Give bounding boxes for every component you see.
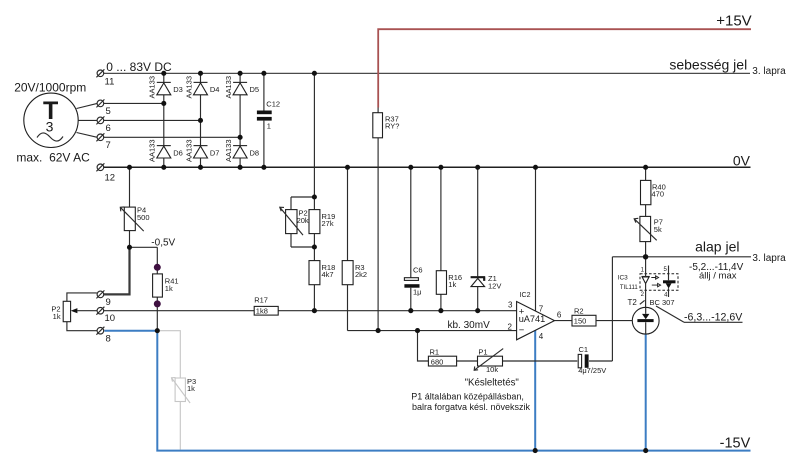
svg-text:−: − bbox=[519, 325, 525, 336]
svg-text:2k2: 2k2 bbox=[355, 270, 367, 279]
svg-text:1k8: 1k8 bbox=[256, 306, 268, 315]
svg-text:470: 470 bbox=[652, 190, 665, 199]
svg-text:1k: 1k bbox=[187, 384, 195, 393]
svg-text:-15V: -15V bbox=[720, 435, 751, 451]
svg-text:állj / max: állj / max bbox=[699, 271, 737, 282]
svg-text:P1: P1 bbox=[478, 347, 487, 356]
svg-text:R17: R17 bbox=[254, 296, 268, 305]
svg-text:8: 8 bbox=[106, 334, 111, 345]
svg-text:AA133: AA133 bbox=[224, 76, 233, 99]
svg-text:"Késleltetés": "Késleltetés" bbox=[465, 377, 520, 388]
svg-text:11: 11 bbox=[105, 77, 115, 88]
svg-text:T2: T2 bbox=[628, 298, 638, 307]
svg-text:IC3: IC3 bbox=[618, 274, 629, 281]
svg-text:2: 2 bbox=[508, 323, 513, 332]
svg-text:3. lapra: 3. lapra bbox=[752, 66, 786, 77]
svg-text:RY?: RY? bbox=[385, 122, 399, 131]
svg-text:D7: D7 bbox=[210, 148, 220, 157]
svg-text:7: 7 bbox=[106, 140, 111, 151]
svg-text:alap jel: alap jel bbox=[695, 238, 739, 254]
svg-text:12: 12 bbox=[105, 173, 116, 184]
svg-text:5: 5 bbox=[106, 106, 111, 117]
svg-text:9: 9 bbox=[106, 297, 111, 308]
svg-text:D3: D3 bbox=[173, 85, 183, 94]
svg-text:R1: R1 bbox=[430, 347, 440, 356]
svg-text:D6: D6 bbox=[173, 148, 183, 157]
svg-text:12V: 12V bbox=[488, 282, 501, 291]
svg-text:1μ: 1μ bbox=[413, 288, 422, 297]
svg-text:1k: 1k bbox=[448, 280, 456, 289]
svg-text:AA133: AA133 bbox=[184, 76, 193, 99]
svg-text:uA741: uA741 bbox=[519, 314, 546, 324]
svg-text:P1 általában középállásban,: P1 általában középállásban, bbox=[411, 392, 524, 402]
svg-text:D5: D5 bbox=[250, 85, 260, 94]
svg-text:6: 6 bbox=[106, 123, 111, 134]
svg-text:sebesség jel: sebesség jel bbox=[669, 56, 747, 72]
svg-text:5k: 5k bbox=[654, 225, 662, 234]
svg-text:20V/1000rpm: 20V/1000rpm bbox=[14, 81, 86, 95]
svg-text:D4: D4 bbox=[210, 85, 220, 94]
svg-text:10k: 10k bbox=[486, 365, 498, 374]
svg-text:1: 1 bbox=[267, 121, 271, 130]
svg-text:680: 680 bbox=[431, 357, 444, 366]
svg-text:BC 307: BC 307 bbox=[650, 298, 675, 307]
svg-text:kb. 30mV: kb. 30mV bbox=[448, 320, 491, 331]
svg-text:150: 150 bbox=[574, 317, 587, 326]
svg-text:-0,5V: -0,5V bbox=[151, 238, 175, 249]
svg-text:IC2: IC2 bbox=[520, 292, 531, 299]
svg-text:D8: D8 bbox=[250, 148, 260, 157]
svg-text:+15V: +15V bbox=[716, 13, 751, 30]
svg-text:4μ7/25V: 4μ7/25V bbox=[578, 366, 606, 375]
svg-text:3: 3 bbox=[508, 300, 513, 309]
svg-text:C12: C12 bbox=[266, 100, 280, 109]
svg-text:7: 7 bbox=[539, 305, 544, 314]
svg-text:TIL111: TIL111 bbox=[620, 285, 638, 291]
svg-text:AA133: AA133 bbox=[148, 76, 157, 99]
svg-text:AA133: AA133 bbox=[224, 139, 233, 162]
svg-text:3: 3 bbox=[46, 119, 54, 135]
svg-text:3. lapra: 3. lapra bbox=[752, 253, 786, 264]
svg-text:AA133: AA133 bbox=[148, 139, 157, 162]
svg-text:4: 4 bbox=[539, 332, 544, 341]
svg-text:500: 500 bbox=[137, 213, 150, 222]
svg-text:1k: 1k bbox=[53, 312, 61, 321]
svg-text:R2: R2 bbox=[574, 306, 584, 315]
svg-text:20k: 20k bbox=[297, 216, 309, 225]
svg-text:1k: 1k bbox=[165, 284, 173, 293]
svg-text:6: 6 bbox=[557, 310, 562, 319]
svg-text:AA133: AA133 bbox=[184, 139, 193, 162]
svg-text:0V: 0V bbox=[733, 152, 751, 168]
svg-text:10: 10 bbox=[105, 313, 116, 324]
svg-text:C1: C1 bbox=[579, 345, 589, 354]
svg-text:balra forgatva késl. növekszik: balra forgatva késl. növekszik bbox=[412, 402, 531, 412]
svg-text:27k: 27k bbox=[322, 219, 334, 228]
svg-text:4k7: 4k7 bbox=[322, 270, 334, 279]
svg-text:-6,3...-12,6V: -6,3...-12,6V bbox=[684, 312, 743, 324]
svg-text:max. 62V AC: max. 62V AC bbox=[16, 151, 90, 165]
svg-text:C6: C6 bbox=[413, 266, 423, 275]
